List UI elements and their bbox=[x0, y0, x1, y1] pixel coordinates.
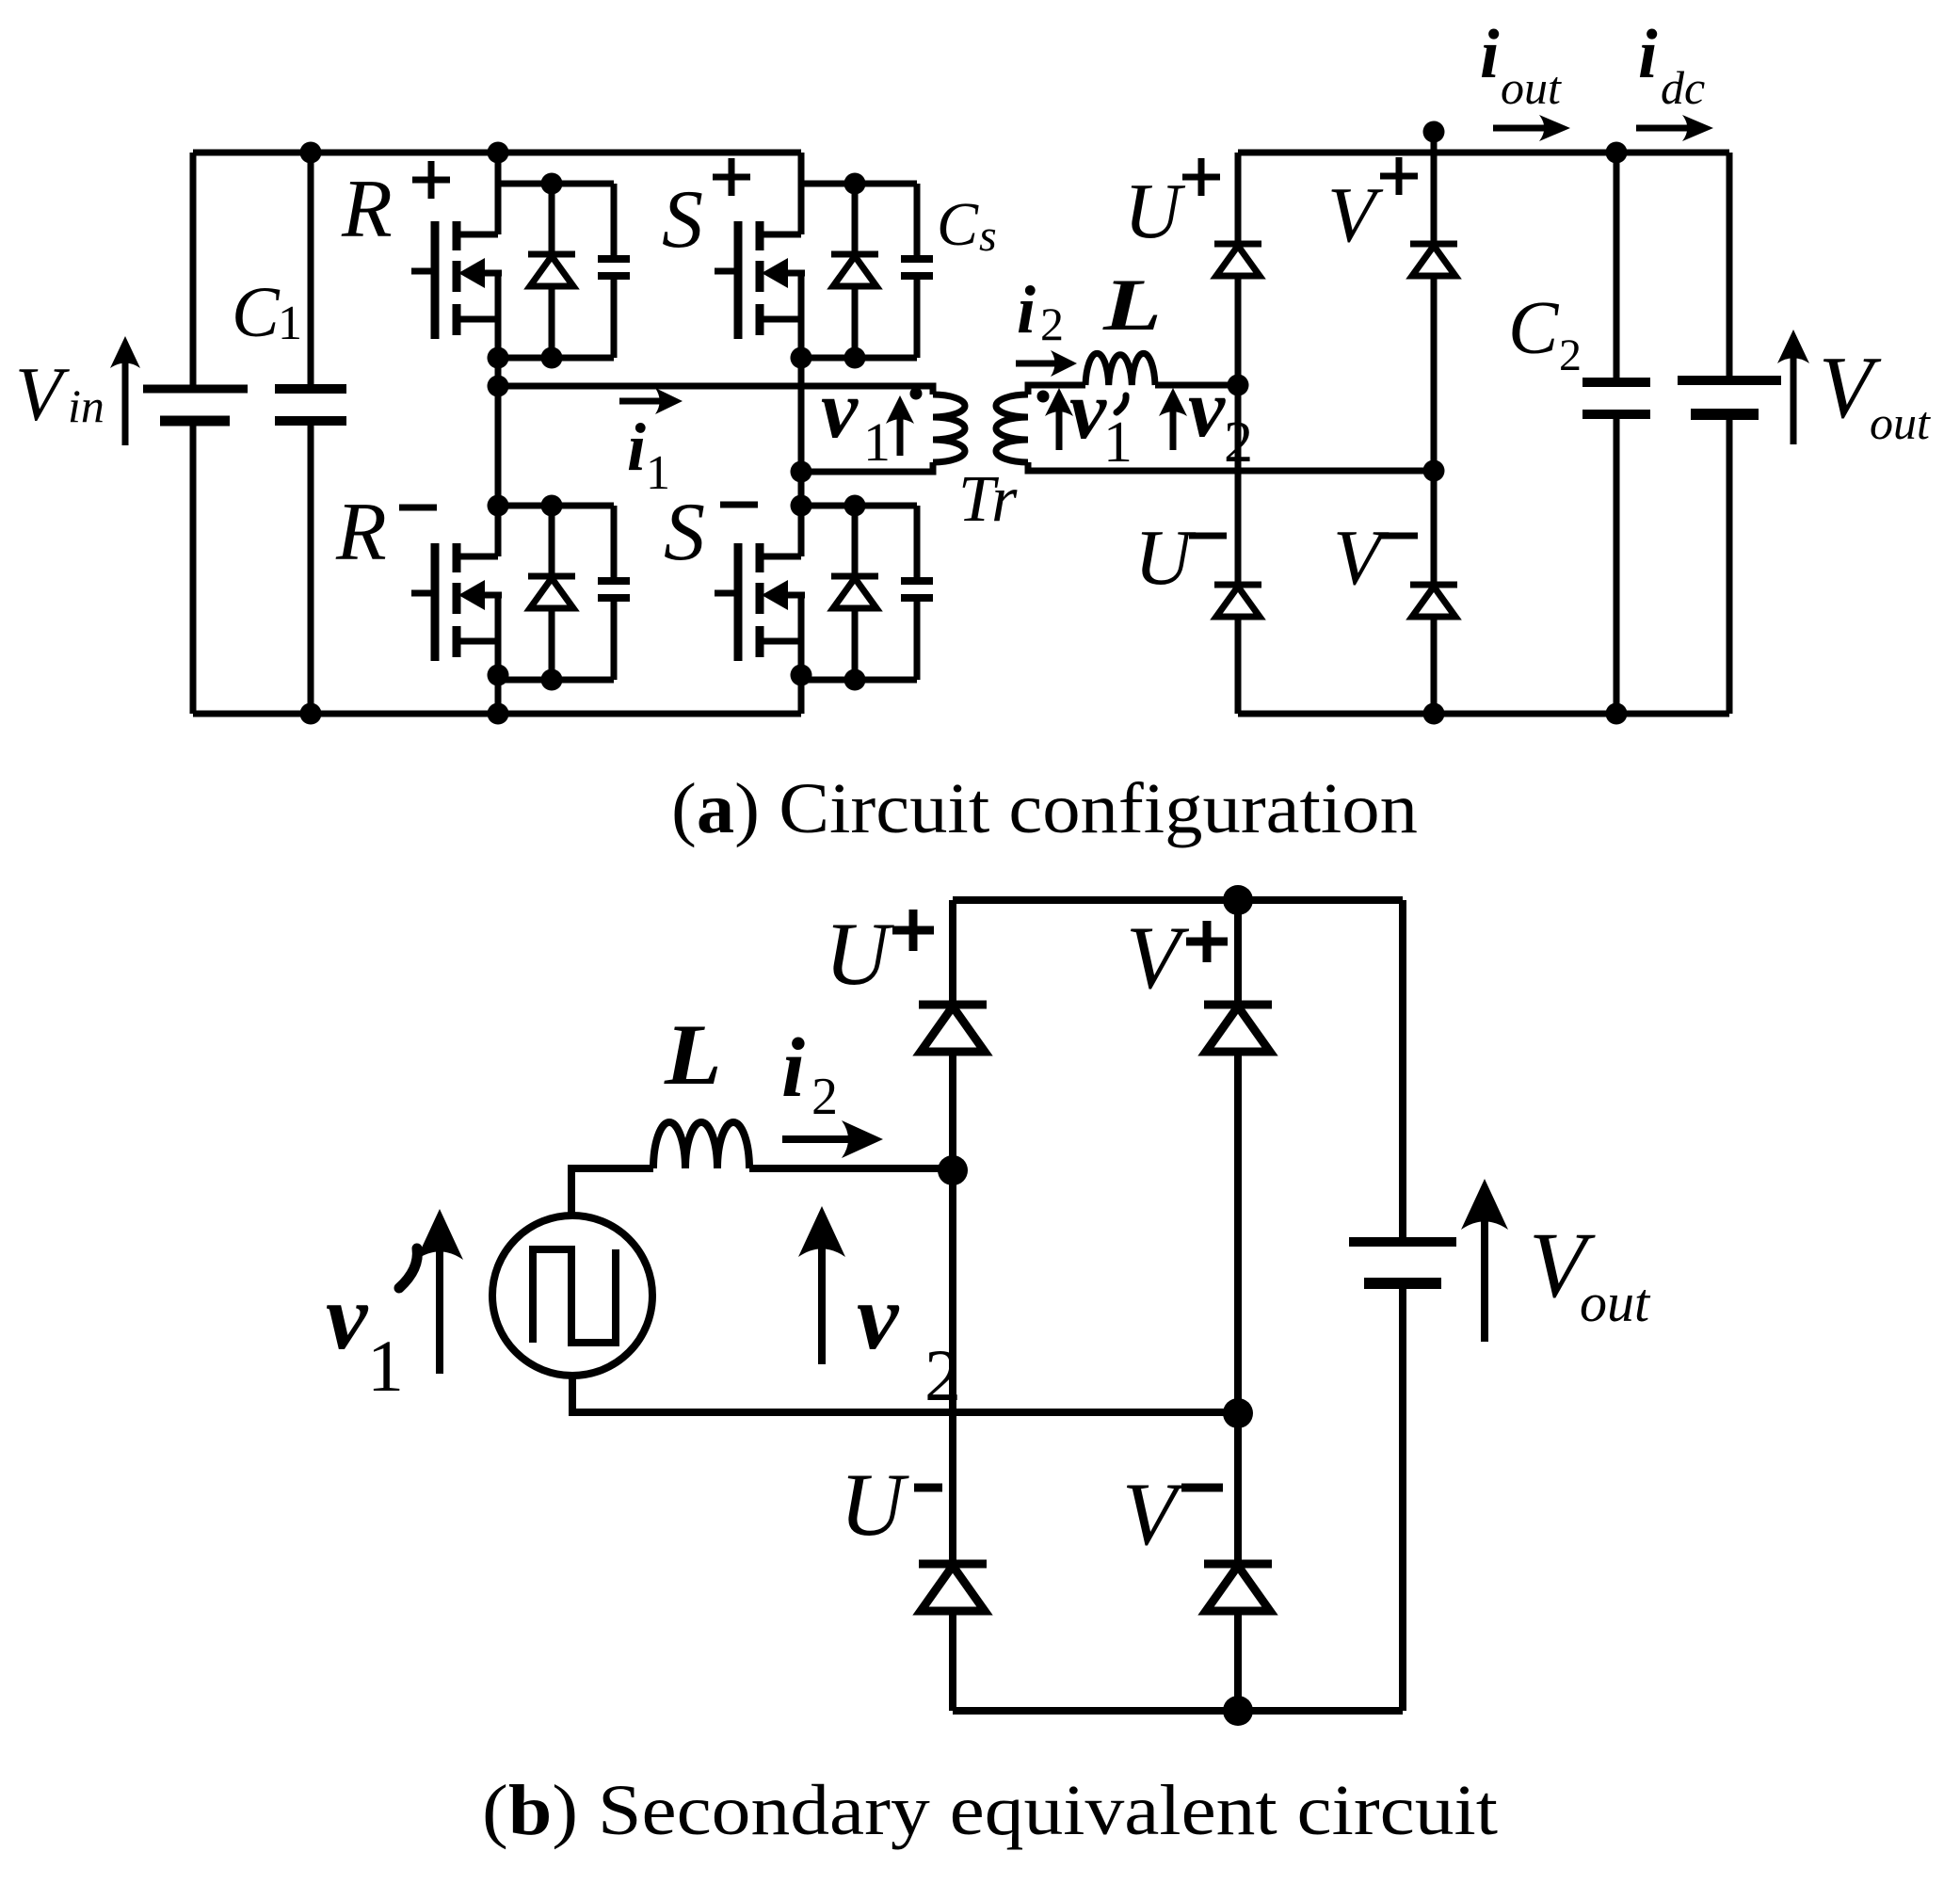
wire: output right branch upper bbox=[1727, 153, 1733, 380]
node: C1 bottom junction bbox=[300, 703, 322, 725]
svg-text:i: i bbox=[627, 410, 646, 485]
label i2 (b) bbox=[781, 1022, 838, 1126]
diode V- (b) bbox=[1204, 1564, 1272, 1611]
node: C2 top junction bbox=[1606, 142, 1628, 164]
diode U+ (b) bbox=[919, 1005, 987, 1052]
svg-text:s: s bbox=[979, 211, 997, 261]
arrow Vout (a) bbox=[1777, 330, 1809, 444]
wire: phase-S node vertical bbox=[798, 358, 805, 506]
wire: secondary top to L bbox=[1028, 385, 1085, 395]
capacitor C1 plates bbox=[275, 389, 346, 421]
node: L / U-leg junction bbox=[1228, 375, 1249, 396]
wire: top rail left H-bridge bbox=[193, 150, 801, 156]
capacitor C2 branch upper bbox=[1614, 153, 1620, 382]
svg-text:U: U bbox=[1124, 168, 1186, 255]
svg-text:out: out bbox=[1580, 1272, 1651, 1333]
wire: U+ anode to L node bbox=[1235, 276, 1242, 385]
polarity dot primary bbox=[910, 388, 923, 400]
svg-text:2: 2 bbox=[1040, 298, 1064, 350]
polarity dot secondary bbox=[1037, 391, 1050, 403]
node: R- source junction bbox=[488, 665, 509, 686]
node: R- drain junction bbox=[488, 495, 509, 517]
wire: V- leg (b) bbox=[1234, 1413, 1242, 1564]
diode V- bbox=[1410, 585, 1457, 617]
wire: right branch (b) lower bbox=[1399, 1283, 1406, 1711]
label Cs bbox=[937, 190, 997, 261]
label U- (b) bbox=[840, 1455, 942, 1554]
output capacitor plates (a) bbox=[1678, 380, 1781, 414]
label V- (b) bbox=[1122, 1464, 1223, 1564]
arrow v1 (up) bbox=[886, 395, 914, 456]
wire: left vertical (Vin branch) lower bbox=[190, 421, 197, 714]
snubber diode+capacitor of S+ (Cs) bbox=[801, 173, 933, 369]
wire: top rail (b) bbox=[953, 896, 1403, 904]
wire: V+ leg (b) upper bbox=[1234, 900, 1242, 1005]
label v1prime (b) bbox=[326, 1248, 417, 1407]
label U+ (b) bbox=[825, 904, 934, 1004]
wire: R+ drain from rail bbox=[495, 153, 502, 184]
square-wave glyph in source (b) bbox=[533, 1249, 616, 1343]
svg-text:S: S bbox=[664, 487, 705, 578]
label C1 bbox=[232, 273, 302, 352]
svg-text:R: R bbox=[341, 164, 393, 255]
wire: rectifier bottom rail bbox=[1238, 711, 1729, 717]
label iout bbox=[1480, 16, 1562, 114]
wire: V+ stub above rail bbox=[1431, 137, 1438, 153]
svg-text:U: U bbox=[840, 1455, 909, 1554]
wire: U- leg (b) bbox=[949, 1170, 956, 1564]
wire: primary top (from i1 wire) bbox=[930, 383, 937, 395]
wire i1 (phase R to primary) bbox=[498, 383, 933, 390]
svg-text:U: U bbox=[1134, 514, 1197, 602]
label R- bbox=[335, 487, 437, 578]
node: secondary bottom / V-leg junction bbox=[1423, 460, 1445, 482]
wire: V+ anode to secondary-bottom node bbox=[1431, 276, 1438, 471]
transistor S+ (MOSFET) bbox=[715, 184, 805, 358]
svg-text:C: C bbox=[937, 190, 979, 259]
node: return/V junction (b) bbox=[1223, 1398, 1253, 1428]
wire: U+ leg (b) upper bbox=[949, 900, 956, 1005]
snubber diode+capacitor of S- bbox=[801, 495, 933, 691]
wire: V+ leg upper bbox=[1431, 153, 1438, 244]
label U+ bbox=[1124, 158, 1220, 255]
source v1prime circle (b) bbox=[492, 1216, 652, 1376]
node: S- drain junction bbox=[791, 495, 812, 517]
node: output node dot above rail bbox=[1423, 121, 1445, 143]
inductor L (a) bbox=[1085, 353, 1155, 385]
svg-text:V: V bbox=[1327, 171, 1384, 259]
node: top rail junction (b) bbox=[1223, 885, 1253, 915]
arrow v1prime (b) bbox=[416, 1209, 463, 1374]
arrow Vout (b) bbox=[1461, 1179, 1508, 1342]
wire: S- source to bottom rail corner bbox=[798, 675, 805, 714]
wire: right branch (b) upper bbox=[1399, 900, 1406, 1242]
arrow v1prime (a) bbox=[1045, 388, 1073, 450]
capacitor C2 plates bbox=[1582, 382, 1650, 414]
diode V+ (b) bbox=[1204, 1005, 1272, 1052]
node: bottom junction (b) bbox=[1223, 1696, 1253, 1726]
svg-text:1: 1 bbox=[863, 411, 891, 473]
label i1 bbox=[627, 410, 670, 500]
capacitor C2 branch lower bbox=[1614, 414, 1620, 714]
transformer Tr secondary winding bbox=[996, 395, 1028, 462]
wire: U- anode to bottom (b) bbox=[949, 1613, 956, 1711]
label v2 (b) bbox=[857, 1264, 961, 1416]
diode V+ bbox=[1410, 244, 1457, 276]
label idc bbox=[1638, 16, 1705, 114]
wire: V- leg upper bbox=[1431, 471, 1438, 585]
node: V- on bottom rail bbox=[1423, 703, 1445, 725]
label i2 (a) bbox=[1017, 272, 1064, 350]
label U- bbox=[1134, 514, 1227, 602]
svg-text:out: out bbox=[1870, 396, 1931, 449]
svg-text:C: C bbox=[1508, 287, 1560, 370]
transistor R+ (MOSFET) bbox=[411, 184, 502, 358]
arrow iout bbox=[1493, 115, 1570, 141]
diode U+ bbox=[1214, 244, 1261, 276]
label Vout (a) bbox=[1819, 339, 1931, 449]
svg-text:1: 1 bbox=[367, 1325, 404, 1407]
snubber diode+capacitor of R- bbox=[498, 495, 630, 691]
diode U- bbox=[1214, 585, 1261, 617]
node: phase S primary-bottom tap bbox=[791, 461, 812, 483]
wire: bottom rail left H-bridge bbox=[193, 711, 801, 717]
node: R+ drain on top rail bbox=[488, 142, 509, 164]
label v1prime (a) bbox=[1069, 365, 1133, 475]
svg-text:V: V bbox=[1122, 1464, 1186, 1564]
arrow i2 (b) bbox=[782, 1120, 883, 1158]
output capacitor plates (b) bbox=[1349, 1242, 1456, 1283]
node: R+ source junction bbox=[488, 347, 509, 369]
svg-text:Tr: Tr bbox=[958, 463, 1018, 536]
label S+ bbox=[662, 158, 750, 266]
svg-text:dc: dc bbox=[1661, 61, 1705, 114]
svg-text:v: v bbox=[821, 364, 859, 456]
svg-text:in: in bbox=[68, 379, 104, 432]
svg-text:L: L bbox=[1102, 264, 1162, 346]
node: R- on bottom rail bbox=[488, 703, 509, 725]
capacitor C1 branch lower bbox=[308, 421, 314, 714]
wire: primary bottom bbox=[801, 462, 933, 472]
arrow i2 (a) bbox=[1016, 350, 1077, 377]
node: C2 bottom junction bbox=[1606, 703, 1628, 725]
caption (a) bbox=[671, 769, 1418, 848]
wire: V+ anode to return node (b) bbox=[1234, 1052, 1242, 1413]
wire: L to U-leg node bbox=[1155, 382, 1238, 389]
wire: V- anode to bottom (b) bbox=[1234, 1613, 1242, 1711]
svg-text:i: i bbox=[1638, 16, 1658, 93]
svg-text:1: 1 bbox=[278, 297, 302, 350]
wire: S+ drain from rail corner bbox=[798, 153, 805, 184]
wire: U-leg middle bbox=[1235, 385, 1242, 585]
svg-text:i: i bbox=[781, 1022, 805, 1115]
node: phase R (i1 tap) bbox=[488, 376, 509, 397]
label V- bbox=[1333, 514, 1418, 602]
wire: L to node (b) bbox=[749, 1165, 953, 1172]
transistor S- (MOSFET) bbox=[715, 506, 805, 680]
svg-text:2: 2 bbox=[1559, 330, 1582, 380]
label L (b) bbox=[664, 1006, 722, 1103]
wire: V- anode to bottom rail bbox=[1431, 617, 1438, 714]
label Vout (b) bbox=[1529, 1213, 1651, 1333]
label R+ bbox=[341, 161, 450, 255]
wire: rectifier top rail bbox=[1238, 150, 1729, 156]
label v2 (a) bbox=[1188, 363, 1253, 475]
svg-text:(a) Circuit configuration: (a) Circuit configuration bbox=[671, 769, 1418, 848]
svg-text:R: R bbox=[335, 487, 387, 578]
wire: source bottom lead (b) bbox=[572, 1376, 1238, 1412]
battery Vin symbol plates bbox=[143, 389, 248, 421]
svg-text:i: i bbox=[1480, 16, 1500, 93]
wire: U- anode to bottom rail bbox=[1235, 617, 1242, 714]
wire: output right branch lower bbox=[1727, 414, 1733, 714]
label C2 bbox=[1508, 287, 1582, 380]
arrow i1 (right) bbox=[619, 388, 683, 414]
arrow Vin (up) bbox=[110, 336, 140, 445]
svg-text:v: v bbox=[1069, 365, 1107, 457]
svg-text:L: L bbox=[664, 1006, 722, 1103]
transistor R- (MOSFET) bbox=[411, 506, 502, 680]
node: S- source junction bbox=[791, 665, 812, 686]
label V+ (b) bbox=[1126, 908, 1228, 1007]
node: C1 top junction bbox=[300, 142, 322, 164]
wire: U+ anode to L node (b) bbox=[949, 1052, 956, 1170]
svg-text:i: i bbox=[1017, 272, 1036, 347]
svg-text:U: U bbox=[825, 904, 894, 1004]
svg-text:v: v bbox=[857, 1264, 900, 1369]
svg-text:1: 1 bbox=[1103, 411, 1133, 475]
arrow v2 (a) bbox=[1159, 388, 1187, 450]
diode U- (b) bbox=[919, 1564, 987, 1611]
label Tr bbox=[958, 463, 1018, 536]
label V+ bbox=[1327, 157, 1418, 259]
node: S+ source junction bbox=[791, 347, 812, 369]
svg-text:V: V bbox=[1126, 908, 1190, 1007]
svg-text:(b) Secondary equivalent circu: (b) Secondary equivalent circuit bbox=[482, 1771, 1498, 1850]
arrow idc bbox=[1636, 115, 1713, 141]
inductor L (b) bbox=[653, 1122, 749, 1168]
capacitor C1 branch upper bbox=[308, 153, 314, 389]
wire: left vertical (Vin branch) upper bbox=[190, 153, 197, 389]
wire: R- source to bottom rail bbox=[495, 675, 502, 714]
svg-text:V: V bbox=[1333, 514, 1390, 602]
svg-text:V: V bbox=[15, 351, 70, 437]
label L (a) bbox=[1102, 264, 1162, 346]
transformer Tr primary winding bbox=[933, 395, 965, 462]
label Vin bbox=[15, 351, 104, 437]
wire: secondary bottom to V leg bbox=[1028, 462, 1434, 471]
wire: bottom rail (b) bbox=[953, 1707, 1403, 1715]
wire: phase-R node vertical bbox=[495, 358, 502, 506]
svg-text:C: C bbox=[232, 273, 281, 352]
node: L junction (b) bbox=[938, 1155, 968, 1185]
svg-text:2: 2 bbox=[811, 1068, 838, 1126]
svg-text:v: v bbox=[1188, 363, 1226, 455]
svg-text:out: out bbox=[1501, 61, 1562, 114]
label v1 bbox=[821, 364, 891, 473]
caption (b) bbox=[482, 1771, 1498, 1850]
wire: source top lead (b) bbox=[571, 1168, 653, 1216]
svg-text:S: S bbox=[662, 174, 703, 266]
arrow v2 (b) bbox=[798, 1206, 845, 1364]
svg-text:v: v bbox=[326, 1264, 369, 1369]
snubber diode+capacitor of R+ bbox=[498, 173, 630, 369]
wire: U+ leg upper bbox=[1235, 153, 1242, 244]
label S- bbox=[664, 487, 758, 578]
